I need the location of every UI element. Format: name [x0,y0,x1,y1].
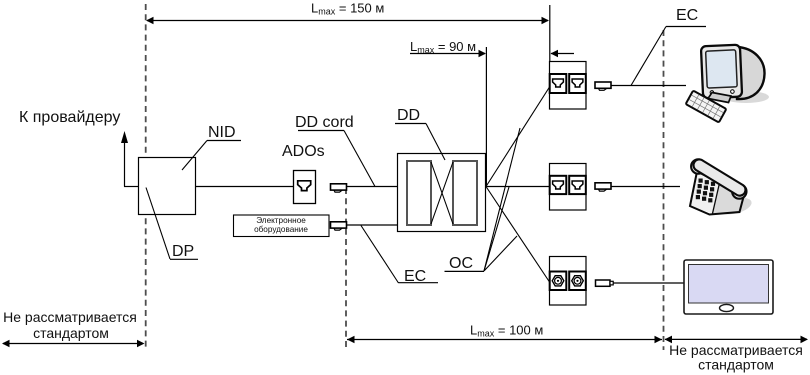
svg-text:стандартом: стандартом [698,357,774,373]
wire: cable to middle outlet [486,186,550,188]
wire: cord to phone [611,186,680,188]
label DP [146,188,198,261]
wire: NID to ADOs [195,186,294,188]
label DD cord [295,114,375,187]
DD inner patch panel left [407,161,431,225]
label NID [182,124,241,170]
wire: DD cord plug dashed extension line [345,188,347,348]
connector plug P5 (coax to TV) [596,280,614,286]
ADOs outlet box [282,143,325,204]
label EC (equipment cords at outlets) [631,7,706,86]
svg-text:оборудование: оборудование [254,225,308,234]
label OC (outlet cables) [445,128,521,272]
svg-text:Не рассматривается: Не рассматривается [3,309,137,325]
DD distribution device box [398,154,486,232]
DD inner patch panel right [453,161,477,225]
svg-text:ADOs: ADOs [282,143,325,160]
connector plug P4 (to phone) [595,183,611,191]
outlet TO1 (top, data) [550,62,587,110]
DD cross connect X [431,162,453,224]
not covered by standard (right) [665,336,809,373]
svg-text:OC: OC [449,255,473,272]
outlet TO3 (bottom, coax) [550,257,587,306]
outlet TO2 (middle, data) [550,164,587,211]
not covered by standard (left) [2,309,145,347]
connector plug P2 (equipment cord) [331,222,347,230]
svg-text:DD: DD [397,107,420,124]
TV icon [684,260,773,314]
wire: cable to bottom outlet [486,187,550,283]
electronic equipment box [234,215,330,237]
wire: right boundary dashed line [663,30,665,350]
phone icon [690,159,753,217]
wire: left boundary dashed line [145,4,147,348]
svg-text:Электронное: Электронное [256,216,306,225]
connector plug P3 (to computer) [595,82,611,90]
wire: DD cord to DD [347,186,408,188]
svg-text:DP: DP [172,243,194,260]
label EC (equipment cord) [361,226,438,286]
wire: cord to TV [613,282,684,284]
wire: equipment cord to DD [347,224,398,226]
wire: cord to computer [611,85,686,87]
NID box [139,158,196,215]
node: to provider arrow [19,109,139,187]
wire: cable to top outlet [486,87,550,187]
dimension Lmax = 100 m [347,322,662,343]
svg-text:NID: NID [208,124,236,141]
svg-text:К провайдеру: К провайдеру [19,109,120,126]
svg-text:EC: EC [676,7,698,24]
wire: extension line from 90m dimension to junction [485,47,487,186]
wire: extension line at outlets column [549,5,551,61]
svg-text:стандартом: стандартом [33,325,109,341]
svg-text:DD cord: DD cord [295,114,354,131]
connector plug P1 (DD cord upper) [331,184,347,192]
dimension Lmax = 150 m [146,1,549,25]
label DD [395,107,445,160]
dimension Lmax = 90 m [410,39,574,57]
computer icon [686,45,769,123]
